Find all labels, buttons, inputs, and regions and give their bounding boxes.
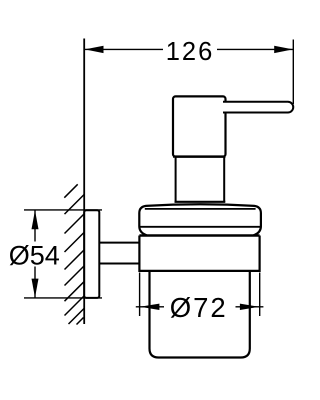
dimension O54: top extension line [24,209,102,211]
dimension 126: line left segment [84,48,163,50]
soap dispenser pump head [173,96,226,156]
dimension O72: line left segment [136,306,164,308]
dimension O72: left arrowhead [140,304,160,310]
dimension 126: line right segment [217,48,293,50]
pump neck left side [175,157,177,202]
wall line [83,39,85,325]
wall mount arm bottom line [99,263,139,265]
pump neck bottom edge [175,201,226,203]
dimension O72: left extension line [139,273,141,317]
holder shoulder (bun) [139,204,261,235]
dimension O54: down arrowhead [32,279,39,298]
holder ring band [139,236,259,271]
dimension O54: bottom extension line [24,297,102,299]
holder ring band top edge [139,234,259,237]
wall mount arm top line [99,242,139,244]
svg-text:Ø54: Ø54 [9,240,60,270]
glass tumbler [150,272,250,358]
pump neck right side [223,157,225,202]
svg-text:Ø72: Ø72 [170,292,228,323]
wall hatching [64,184,84,324]
pump head bottom edge [173,155,226,157]
holder shoulder chamfer line [145,208,256,210]
dimension O54: up arrowhead [32,210,39,229]
dimension 126: left arrowhead [85,46,104,53]
dimension 126: right arrowhead [274,46,293,53]
dimension O72: right arrowhead [240,304,260,310]
svg-text:126: 126 [166,38,215,66]
dimension 126: right extension line [292,40,294,105]
pump spout [223,102,293,113]
dimension O54: line upper segment [34,210,36,242]
dimension O72: line right segment [236,306,264,308]
holder shoulder lower line [139,226,261,228]
dimension O72: right extension line [259,273,261,317]
dimension O54: line lower segment [34,267,36,298]
wall rosette [84,210,99,298]
